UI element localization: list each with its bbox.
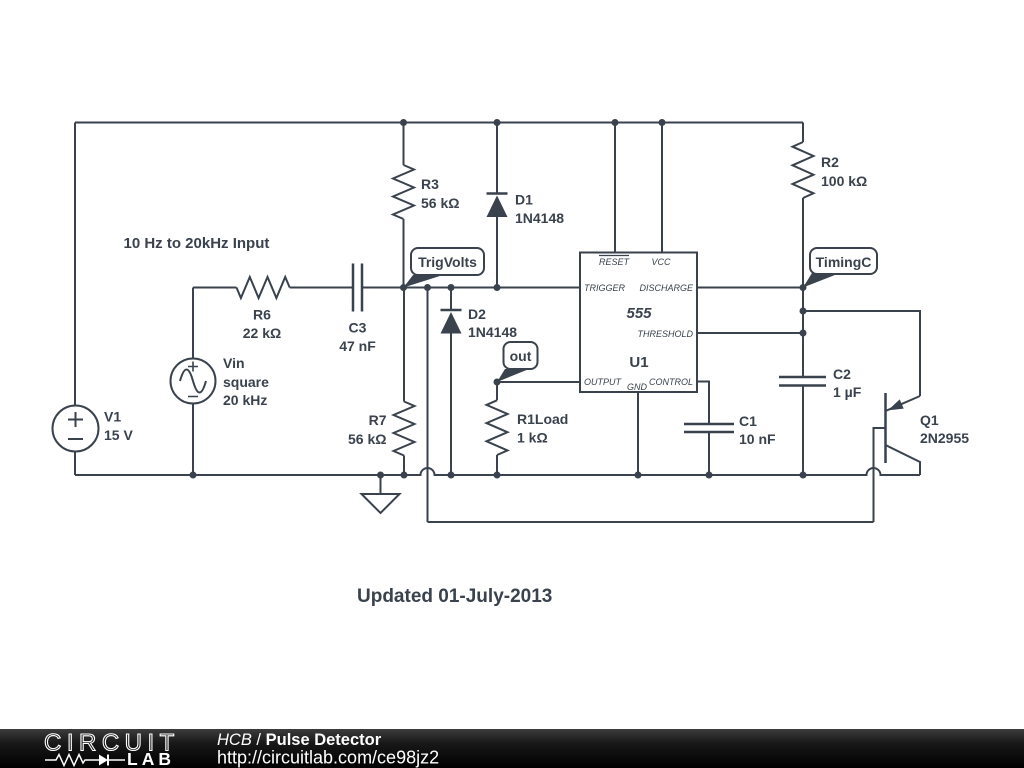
svg-text:RESET: RESET — [599, 257, 631, 267]
wire RESET pin — [614, 123, 616, 253]
wire C2 bottom to rail — [802, 386, 804, 476]
svg-text:10 Hz to 20kHz Input: 10 Hz to 20kHz Input — [124, 235, 270, 252]
svg-text:LAB: LAB — [127, 749, 175, 768]
source Vin — [171, 359, 216, 404]
svg-text:56 kΩ: 56 kΩ — [421, 195, 459, 211]
svg-text:HCB / Pulse Detector: HCB / Pulse Detector — [217, 731, 382, 749]
wire trigger line left segment — [193, 287, 237, 289]
resistor R3 — [393, 123, 414, 288]
node ground junction — [377, 472, 384, 479]
resistor R6 — [237, 277, 290, 298]
capacitor C2 — [779, 377, 826, 386]
node R1Load bottom junction — [494, 472, 501, 479]
node D2 bottom junction — [448, 472, 455, 479]
wire VCC pin — [661, 123, 663, 253]
resistor R1Load — [487, 382, 508, 475]
wire top rail VCC — [75, 122, 803, 124]
wire Vin top to trigger line — [192, 288, 194, 359]
transistor Q1 — [874, 393, 921, 475]
node D1 top rail — [494, 119, 501, 126]
svg-text:GND: GND — [627, 382, 648, 392]
svg-text:square: square — [223, 374, 269, 390]
svg-text:10 nF: 10 nF — [739, 431, 776, 447]
capacitor C3 — [353, 264, 362, 312]
svg-text:555: 555 — [626, 305, 652, 322]
svg-text:1 kΩ: 1 kΩ — [517, 430, 548, 446]
svg-text:2N2955: 2N2955 — [920, 430, 969, 446]
svg-text:Q1: Q1 — [920, 412, 939, 428]
resistor R2 — [793, 123, 814, 288]
node D1 bottom junction — [494, 284, 501, 291]
logo resistor-diode squiggle — [45, 755, 125, 766]
svg-text:TRIGGER: TRIGGER — [584, 283, 626, 293]
node out junction — [494, 379, 501, 386]
svg-text:R3: R3 — [421, 176, 439, 192]
node R3 top rail — [400, 119, 407, 126]
svg-text:DISCHARGE: DISCHARGE — [639, 283, 694, 293]
svg-text:1N4148: 1N4148 — [468, 324, 517, 340]
svg-text:20 kHz: 20 kHz — [223, 392, 267, 408]
footer bar — [0, 729, 1024, 768]
wire output to IC — [497, 381, 580, 383]
wire GND pin to rail — [637, 392, 639, 475]
flag TrigVolts — [404, 248, 485, 288]
svg-text:22 kΩ: 22 kΩ — [243, 325, 281, 341]
svg-text:R7: R7 — [369, 412, 387, 428]
wire Vin bottom to ground rail — [192, 404, 194, 476]
node C2 rail junction — [800, 472, 807, 479]
node D2 top junction — [448, 284, 455, 291]
wire bottom ground rail with hops — [75, 468, 920, 475]
pin label RESET — [599, 256, 631, 268]
flag TimingC — [803, 248, 877, 288]
wire feedback bottom horizontal — [428, 521, 874, 523]
ground — [362, 475, 400, 513]
wire R6 to C3 — [290, 287, 353, 289]
wire base vertical up — [874, 428, 886, 522]
node trigvolts junction — [400, 284, 407, 291]
svg-text:http://circuitlab.com/ce98jz2: http://circuitlab.com/ce98jz2 — [217, 748, 439, 768]
wire C1 to rail — [708, 432, 710, 475]
svg-text:TrigVolts: TrigVolts — [418, 254, 477, 270]
node C1 rail junction — [706, 472, 713, 479]
diode D1 — [487, 123, 508, 288]
node Vin-ground junction — [190, 472, 197, 479]
node GND rail junction — [635, 472, 642, 479]
svg-text:Updated 01-July-2013: Updated 01-July-2013 — [357, 586, 552, 607]
svg-text:TimingC: TimingC — [816, 254, 872, 270]
wire threshold to timing column — [697, 332, 803, 334]
svg-text:1N4148: 1N4148 — [515, 210, 564, 226]
flag out — [497, 342, 538, 382]
svg-text:Vin: Vin — [223, 355, 245, 371]
wire CONTROL pin to C1 — [697, 382, 709, 425]
wire feedback vertical down from trigger — [427, 288, 429, 523]
svg-text:R6: R6 — [253, 307, 271, 323]
svg-text:C2: C2 — [833, 366, 851, 382]
svg-text:CONTROL: CONTROL — [649, 377, 693, 387]
node emitter branch junction — [800, 308, 807, 315]
svg-text:R2: R2 — [821, 154, 839, 170]
resistor R7 — [394, 288, 415, 476]
svg-text:R1Load: R1Load — [517, 411, 568, 427]
svg-text:V1: V1 — [104, 409, 121, 425]
node RESET top rail — [612, 119, 619, 126]
svg-text:15 V: 15 V — [104, 427, 133, 443]
diode D2 — [441, 288, 462, 476]
svg-text:THRESHOLD: THRESHOLD — [637, 329, 693, 339]
svg-text:100 kΩ: 100 kΩ — [821, 173, 867, 189]
capacitor C1 — [684, 424, 734, 432]
wire emitter branch — [803, 311, 920, 396]
svg-text:OUTPUT: OUTPUT — [584, 377, 623, 387]
svg-text:D1: D1 — [515, 192, 533, 208]
wire V1 bottom to ground rail — [74, 452, 76, 476]
wire left rail from top rail to V1 — [74, 123, 76, 406]
node VCC top rail — [659, 119, 666, 126]
svg-text:47 nF: 47 nF — [339, 338, 376, 354]
wire C3 to trigger node — [362, 287, 580, 289]
wire discharge to timing node — [697, 287, 803, 289]
node feedback junction — [424, 284, 431, 291]
node TimingC junction — [800, 284, 807, 291]
svg-text:1 µF: 1 µF — [833, 384, 862, 400]
svg-text:U1: U1 — [629, 354, 648, 371]
voltage source V1 — [53, 406, 99, 452]
node threshold junction — [800, 330, 807, 337]
svg-text:D2: D2 — [468, 306, 486, 322]
svg-text:VCC: VCC — [651, 257, 671, 267]
svg-text:56 kΩ: 56 kΩ — [348, 431, 386, 447]
op-amp U1 555 timer box — [580, 253, 697, 393]
node R7 bottom junction — [401, 472, 408, 479]
wire timing column down to C2 — [802, 288, 804, 378]
svg-text:C3: C3 — [349, 320, 367, 336]
svg-text:out: out — [510, 348, 532, 364]
svg-text:C1: C1 — [739, 413, 757, 429]
